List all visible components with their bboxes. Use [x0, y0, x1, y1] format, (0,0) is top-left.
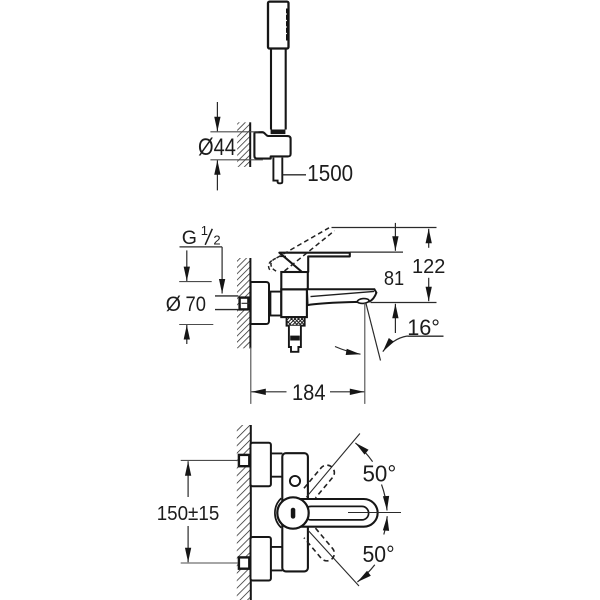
dimension 122 arrow bottom — [428, 278, 430, 301]
mixer body (side) — [281, 289, 307, 317]
dimension 150 arrow bottom — [187, 526, 189, 562]
lever raised position (dashed) end cap — [269, 258, 277, 271]
svg-text:50°: 50° — [363, 541, 395, 567]
svg-text:50°: 50° — [363, 460, 397, 486]
dimension Ø70 extension bottom — [179, 324, 213, 326]
extension line 150 bottom — [181, 562, 238, 564]
dimension 122 arrow top — [428, 229, 430, 248]
dimension 184 arrow left — [251, 391, 286, 393]
spout swivel arc — [335, 347, 361, 355]
G1/2 union square — [240, 298, 249, 310]
hand shower handle — [271, 49, 286, 130]
svg-text:Ø: Ø — [166, 293, 181, 316]
upper 50deg centre line — [306, 434, 360, 498]
reference line spout tip level — [371, 302, 437, 304]
svg-text:150±15: 150±15 — [157, 503, 220, 525]
lever dashed down position — [304, 528, 337, 564]
outlet stub — [289, 326, 301, 352]
bottom connecting stub — [271, 547, 283, 571]
shower bracket — [254, 132, 290, 158]
extension line right (184 / spout tip) — [364, 303, 366, 404]
dimension Ø70 extension top — [179, 281, 212, 283]
upper 50deg arc segment 1 — [355, 443, 372, 462]
16deg leader arc — [383, 336, 408, 352]
top G1/2 square — [239, 455, 249, 466]
wall hatching (side view) — [237, 258, 250, 348]
aerator at spout tip — [357, 298, 369, 304]
wall hatching (top view) — [237, 122, 250, 167]
upper 50deg arc segment 2 — [382, 485, 388, 511]
lower 50deg arc segment 2 — [357, 565, 374, 582]
dimension Ø70 arrow top — [186, 250, 188, 281]
svg-text:2: 2 — [213, 233, 220, 248]
wall face line (top view) — [249, 122, 251, 167]
G1/2 leader underline — [180, 246, 223, 248]
wall face line (side view) — [249, 258, 251, 348]
svg-text:1500: 1500 — [307, 160, 353, 186]
lever raised position (dashed) edge A — [277, 228, 330, 258]
outlet stub dark band — [290, 336, 300, 341]
top connecting stub — [271, 453, 283, 476]
bottom union block — [251, 537, 271, 581]
svg-text:G: G — [182, 227, 197, 249]
hub outer arc — [275, 498, 281, 527]
diverter button — [290, 476, 300, 486]
hand shower head — [268, 2, 289, 49]
mixer body (front) — [282, 453, 308, 571]
dimension Ø44 arrow bottom — [216, 160, 218, 190]
spout top bevel line — [311, 291, 375, 296]
lever handle (side, horizontal) — [279, 253, 349, 272]
lower 50deg arc segment 1 — [384, 516, 387, 534]
leader line 1500 — [283, 174, 307, 176]
wall face line (front view) — [250, 425, 252, 600]
lever handle (front, horizontal) — [296, 499, 378, 527]
dimension 150 arrow top — [187, 461, 189, 497]
reference line lever raised top — [332, 227, 437, 229]
dimension 184 arrow right — [330, 391, 364, 393]
lever inner outline — [304, 506, 368, 520]
spout — [307, 289, 377, 305]
16deg underline — [408, 335, 444, 337]
bottom G1/2 square — [239, 557, 249, 568]
svg-text:184: 184 — [292, 380, 326, 405]
reference line lever top — [350, 251, 403, 253]
wall hatching (front view) — [237, 425, 251, 600]
dimension 81 arrow bottom — [394, 304, 396, 333]
svg-text:Ø44: Ø44 — [198, 134, 236, 161]
lower 50deg centre line — [308, 530, 359, 586]
centre line of inlet — [242, 302, 291, 304]
lever dashed up position — [304, 462, 337, 498]
lever hub — [277, 497, 308, 528]
G1/2 leader arrow — [221, 247, 223, 294]
handle connector dark band — [271, 130, 286, 135]
spout angle line 16deg — [366, 304, 381, 361]
dimension Ø44 extension line top — [210, 131, 258, 133]
svg-text:70: 70 — [186, 293, 206, 316]
dimension Ø70 arrow bottom — [186, 325, 188, 344]
cartridge housing — [281, 272, 308, 289]
hub index mark — [291, 508, 296, 519]
dimension 81 arrow top — [394, 223, 396, 251]
shower hose — [273, 158, 282, 184]
svg-text:122: 122 — [412, 255, 445, 278]
extension line 150 top — [181, 459, 238, 461]
spray face dark band — [286, 9, 289, 41]
svg-text:1: 1 — [201, 223, 208, 238]
dimension Ø44 arrow top — [216, 102, 218, 131]
lever raised position (dashed) edge B — [285, 231, 335, 271]
top union block — [251, 443, 271, 487]
dimension Ø44 extension line bottom — [210, 159, 263, 161]
horizontal centre line at lever — [348, 512, 401, 514]
svg-text:81: 81 — [384, 268, 404, 290]
escutcheon flange — [251, 282, 269, 324]
extension line left (184) — [250, 347, 252, 404]
knurled shower-hose nut — [287, 317, 305, 326]
supply pipe lines behind wall — [215, 296, 238, 310]
connector between flange and body — [270, 292, 281, 316]
